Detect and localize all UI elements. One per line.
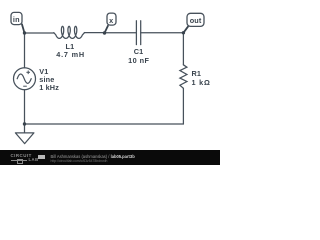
node label text: in bbox=[0, 16, 51, 23]
wire: resistor bottom down to corner bbox=[182, 88, 184, 124]
junction dot node x bbox=[103, 31, 106, 34]
label R1 value 1 kOhm bbox=[192, 79, 211, 86]
footer CircuitLab logo: CIRCUIT bbox=[11, 154, 32, 158]
wire: out corner down to resistor top bbox=[182, 33, 184, 65]
wire: bottom rail bbox=[25, 123, 184, 125]
node flag leader: in bbox=[22, 24, 25, 33]
footer logo LAB text bbox=[29, 158, 39, 162]
wire: capacitor to out node corner bbox=[141, 32, 184, 34]
voltage source V1 circle bbox=[14, 68, 36, 90]
capacitor C1 right plate bbox=[140, 21, 142, 45]
node label text: x bbox=[76, 17, 146, 24]
label V1 name bbox=[39, 68, 48, 75]
footer logo LAB line art bbox=[11, 160, 27, 161]
footer credit line 1 bbox=[51, 155, 135, 159]
V1 sine wave bbox=[17, 74, 31, 83]
label R1 name bbox=[192, 70, 202, 77]
label C1 name bbox=[104, 48, 174, 55]
footer watermark bar bbox=[0, 150, 220, 165]
label V1 type sine bbox=[39, 76, 54, 83]
inductor L1 coil bbox=[54, 26, 85, 38]
node flag leader: out bbox=[183, 26, 188, 33]
resistor R1 zigzag bbox=[180, 65, 187, 89]
junction dot ground rail bbox=[23, 122, 26, 125]
wire: in node to inductor (top left horizontal) bbox=[25, 32, 55, 34]
node flag box: in bbox=[11, 12, 22, 24]
wire: inductor to x node bbox=[84, 32, 104, 34]
label L1 value 4.7 mH bbox=[36, 51, 106, 58]
wire: vertical from in node down to V1 top bbox=[24, 33, 26, 68]
junction dot node out bbox=[182, 31, 185, 34]
node flag box: out bbox=[187, 13, 204, 26]
V1 plus sign bbox=[26, 71, 30, 73]
footer logo white block bbox=[38, 155, 45, 159]
label C1 value 10 nF bbox=[104, 57, 174, 64]
junction dot node in bbox=[23, 31, 26, 34]
node flag box: x bbox=[107, 13, 116, 25]
ground symbol triangle bbox=[15, 133, 34, 144]
label L1 name bbox=[35, 43, 105, 50]
capacitor C1 left plate bbox=[135, 21, 137, 45]
node label text: out bbox=[161, 17, 231, 24]
V1 minus sign bbox=[23, 85, 27, 87]
wire: x node to capacitor left plate bbox=[105, 32, 137, 34]
node flag leader: x bbox=[105, 25, 109, 33]
wire: V1 bottom to rail junction bbox=[24, 90, 26, 124]
footer credit line 2 bbox=[51, 160, 108, 163]
label V1 value 1 kHz bbox=[39, 84, 59, 91]
wire: ground stub bbox=[24, 124, 26, 133]
